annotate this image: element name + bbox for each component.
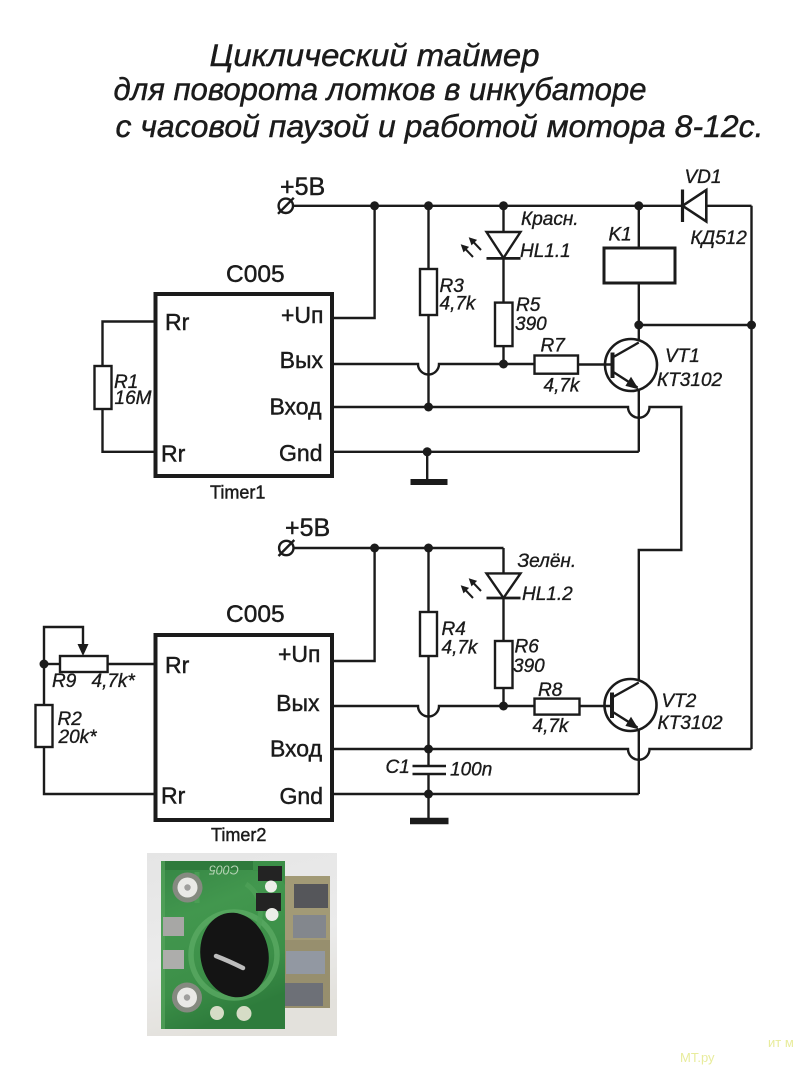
wire +Up drop Timer2 <box>332 548 375 661</box>
LED HL1.1 triangle <box>487 232 521 258</box>
photo khaki flex strip <box>283 876 330 1008</box>
node R6-output2 <box>499 702 508 711</box>
svg-text:ит м: ит м <box>768 1035 794 1050</box>
photo background <box>147 853 337 1036</box>
svg-text:Вход: Вход <box>270 736 323 762</box>
svg-text:Rr: Rr <box>161 783 186 809</box>
svg-text:VT2: VT2 <box>662 691 697 712</box>
svg-text:Вых: Вых <box>280 347 324 373</box>
wire right vertical rail <box>750 206 752 749</box>
svg-text:Rr: Rr <box>161 441 186 467</box>
wire LED HL1.2 to R6 <box>502 598 504 641</box>
wire R8 to VT2 base <box>580 705 612 707</box>
svg-text:КТ3102: КТ3102 <box>657 370 723 391</box>
potentiometer R9 wiper arrow <box>78 644 89 656</box>
svg-text:С005: С005 <box>209 863 239 877</box>
photo left pad b <box>163 950 184 969</box>
svg-text:16M: 16M <box>115 388 152 409</box>
resistor R2 <box>36 705 53 747</box>
wire LED HL1.2 top <box>502 548 504 573</box>
photo epoxy blob <box>194 907 276 1003</box>
svg-text:4,7k: 4,7k <box>533 716 570 737</box>
photo white dot b <box>266 908 279 921</box>
wire R2 bottom loop to Timer2 <box>44 747 155 794</box>
photo black pad top right b <box>256 893 281 911</box>
svg-text:Rr: Rr <box>165 309 190 335</box>
wire R3 top <box>427 206 429 269</box>
wire R7 to VT1 base <box>578 363 613 365</box>
node R9-R2 <box>40 660 49 669</box>
node right rail / collector link <box>747 321 756 330</box>
wire R1 top loop <box>103 322 156 367</box>
wire R5 bottom to output line <box>502 346 504 364</box>
svg-text:Вых: Вых <box>276 690 320 716</box>
svg-text:КД512: КД512 <box>691 228 748 249</box>
power symbol +5V (bottom) <box>279 540 295 556</box>
svg-text:+Uп: +Uп <box>278 641 321 667</box>
photo pad row4 <box>285 983 323 1006</box>
photo pad row2 <box>293 915 326 938</box>
wire from diode VD1 to right rail <box>706 205 751 207</box>
svg-text:Gnd: Gnd <box>279 440 322 466</box>
svg-text:4,7k: 4,7k <box>440 294 477 315</box>
wire VT2 emitter vertical <box>638 730 640 795</box>
svg-text:МТ.ру: МТ.ру <box>680 1050 715 1065</box>
svg-text:4,7k: 4,7k <box>442 638 479 659</box>
wire Timer2 output line with hop <box>332 706 535 717</box>
watermark MT <box>680 1035 794 1065</box>
resistor R4 <box>420 612 437 656</box>
photo khaki shade <box>283 940 330 1008</box>
wire LED HL1.1 to R5 <box>502 258 504 302</box>
LED HL1.2 cathode bar <box>487 597 521 600</box>
wire R3 bottom to input line <box>427 315 429 407</box>
node rail1-R3 <box>424 201 433 210</box>
wire R9 left terminal <box>44 663 60 665</box>
photo light trace ring around blob <box>191 912 277 998</box>
wire relay K1 top <box>638 206 640 248</box>
svg-text:С005: С005 <box>226 601 285 628</box>
relay K1 coil box <box>604 248 675 283</box>
svg-text:Timer1: Timer1 <box>210 483 265 503</box>
svg-text:20k*: 20k* <box>58 727 98 748</box>
svg-text:Зелён.: Зелён. <box>518 551 577 572</box>
node VT1 collector / K1 <box>634 321 643 330</box>
wire Timer1 ground line <box>333 451 639 453</box>
node ground1 <box>423 447 432 456</box>
svg-text:4,7k: 4,7k <box>544 376 581 397</box>
wire node to R2 top <box>43 664 45 705</box>
wire R4 top <box>427 548 429 612</box>
svg-text:R7: R7 <box>541 336 567 357</box>
photo bottom hole a <box>210 1006 224 1020</box>
svg-text:R5: R5 <box>516 295 541 316</box>
photo pad row1 <box>294 884 328 908</box>
IC Timer2 box <box>156 635 333 820</box>
LED HL1.1 arrows <box>461 237 481 257</box>
photo black pad top right a <box>258 866 282 881</box>
IC Timer1 box <box>156 294 333 476</box>
photo board top shade <box>161 861 285 870</box>
wire relay K1 bottom to collector node <box>638 283 640 325</box>
svg-text:VT1: VT1 <box>665 346 700 367</box>
svg-text:Timer2: Timer2 <box>211 825 266 845</box>
node R4-input2-C1 <box>424 745 433 754</box>
svg-text:HL1.1: HL1.1 <box>520 241 571 262</box>
node C1-ground2 <box>424 790 433 799</box>
node rail2-R4 <box>424 544 433 553</box>
photo pad row3 <box>286 951 325 974</box>
photo of C005 timer module <box>147 853 337 1036</box>
photo green PCB <box>161 861 285 1029</box>
wire R4 bottom to input line <box>427 656 429 749</box>
wire +5V rail bottom <box>294 547 504 549</box>
svg-text:+Uп: +Uп <box>281 302 324 328</box>
svg-text:R8: R8 <box>538 680 563 701</box>
power symbol +5V (top) <box>278 198 294 214</box>
ground symbol Timer2 <box>410 794 449 821</box>
svg-text:HL1.2: HL1.2 <box>522 584 573 605</box>
svg-text:R9: R9 <box>52 671 77 692</box>
photo board left edge light <box>161 861 165 1029</box>
svg-text:Красн.: Красн. <box>521 209 579 230</box>
svg-text:Gnd: Gnd <box>280 783 323 809</box>
node R3-input1 <box>424 403 433 412</box>
resistor R6 <box>495 641 513 688</box>
photo plated hole bottom <box>172 983 202 1013</box>
svg-text:+5В: +5В <box>280 173 325 201</box>
svg-text:+5В: +5В <box>285 514 330 542</box>
svg-text:390: 390 <box>513 656 545 677</box>
svg-text:Вход: Вход <box>269 394 322 420</box>
photo blob highlight <box>216 956 243 968</box>
photo bottom hole b <box>237 1006 252 1021</box>
wire Timer2 ground line <box>332 793 639 795</box>
svg-text:4,7k*: 4,7k* <box>92 671 136 692</box>
wire Timer2 input line with hop to right rail <box>332 749 752 760</box>
wire +5V rail top <box>293 205 683 207</box>
node rail1-HL1.1 <box>499 201 508 210</box>
photo left pad a <box>163 917 184 936</box>
LED HL1.2 triangle <box>487 573 521 598</box>
LED HL1.2 arrows <box>461 578 481 598</box>
svg-text:Циклический таймер: Циклический таймер <box>210 37 540 73</box>
node rail2-Up2 <box>370 544 379 553</box>
resistor R3 <box>420 269 437 315</box>
photo trace lines <box>197 872 260 928</box>
node R5-output1 <box>499 360 508 369</box>
diode VD1 <box>683 190 707 223</box>
transistor VT1 <box>605 339 657 391</box>
capacitor C1 <box>413 749 447 794</box>
potentiometer R9 body <box>60 656 108 672</box>
wire R6 bottom to output line <box>502 688 504 706</box>
svg-text:R6: R6 <box>515 637 540 658</box>
svg-text:K1: K1 <box>609 225 632 246</box>
svg-text:для поворота лотков в инкубато: для поворота лотков в инкубаторе <box>114 71 647 107</box>
wire VT1 collector <box>638 325 640 341</box>
resistor R7 <box>535 356 579 374</box>
wire +Up drop Timer1 <box>333 206 375 318</box>
resistor R8 <box>535 699 580 715</box>
node rail1-K1 <box>634 201 643 210</box>
svg-text:КТ3102: КТ3102 <box>658 713 724 734</box>
svg-text:390: 390 <box>515 314 547 335</box>
photo plated hole top <box>173 873 203 903</box>
LED HL1.1 cathode bar <box>487 257 521 260</box>
wire VT1 emitter vertical <box>638 389 640 452</box>
wire potentiometer R9 wiper loop <box>44 627 83 664</box>
wire LED HL1.1 top <box>502 206 504 232</box>
node rail1-Up1 <box>370 201 379 210</box>
resistor R5 <box>495 303 513 347</box>
wire R9 right terminal to Timer2 <box>108 663 155 665</box>
resistor R1 <box>95 366 112 409</box>
transistor VT2 <box>605 679 657 731</box>
wire Timer1 output line with hop <box>333 364 535 375</box>
wire Timer1 input line with hop, to VT2 collector <box>333 407 681 681</box>
svg-text:VD1: VD1 <box>685 167 722 188</box>
wire R1 bottom loop <box>103 409 156 452</box>
photo white dot a <box>265 881 277 893</box>
photo board corner notch <box>253 861 285 885</box>
svg-text:С005: С005 <box>226 261 285 288</box>
svg-text:100n: 100n <box>450 760 492 781</box>
svg-text:с часовой паузой и работой мот: с часовой паузой и работой мотора 8-12с. <box>116 108 764 144</box>
svg-text:Rr: Rr <box>165 652 190 678</box>
ground symbol Timer1 <box>411 452 448 482</box>
svg-text:C1: C1 <box>386 757 410 778</box>
wire collector node to right rail <box>639 324 752 326</box>
